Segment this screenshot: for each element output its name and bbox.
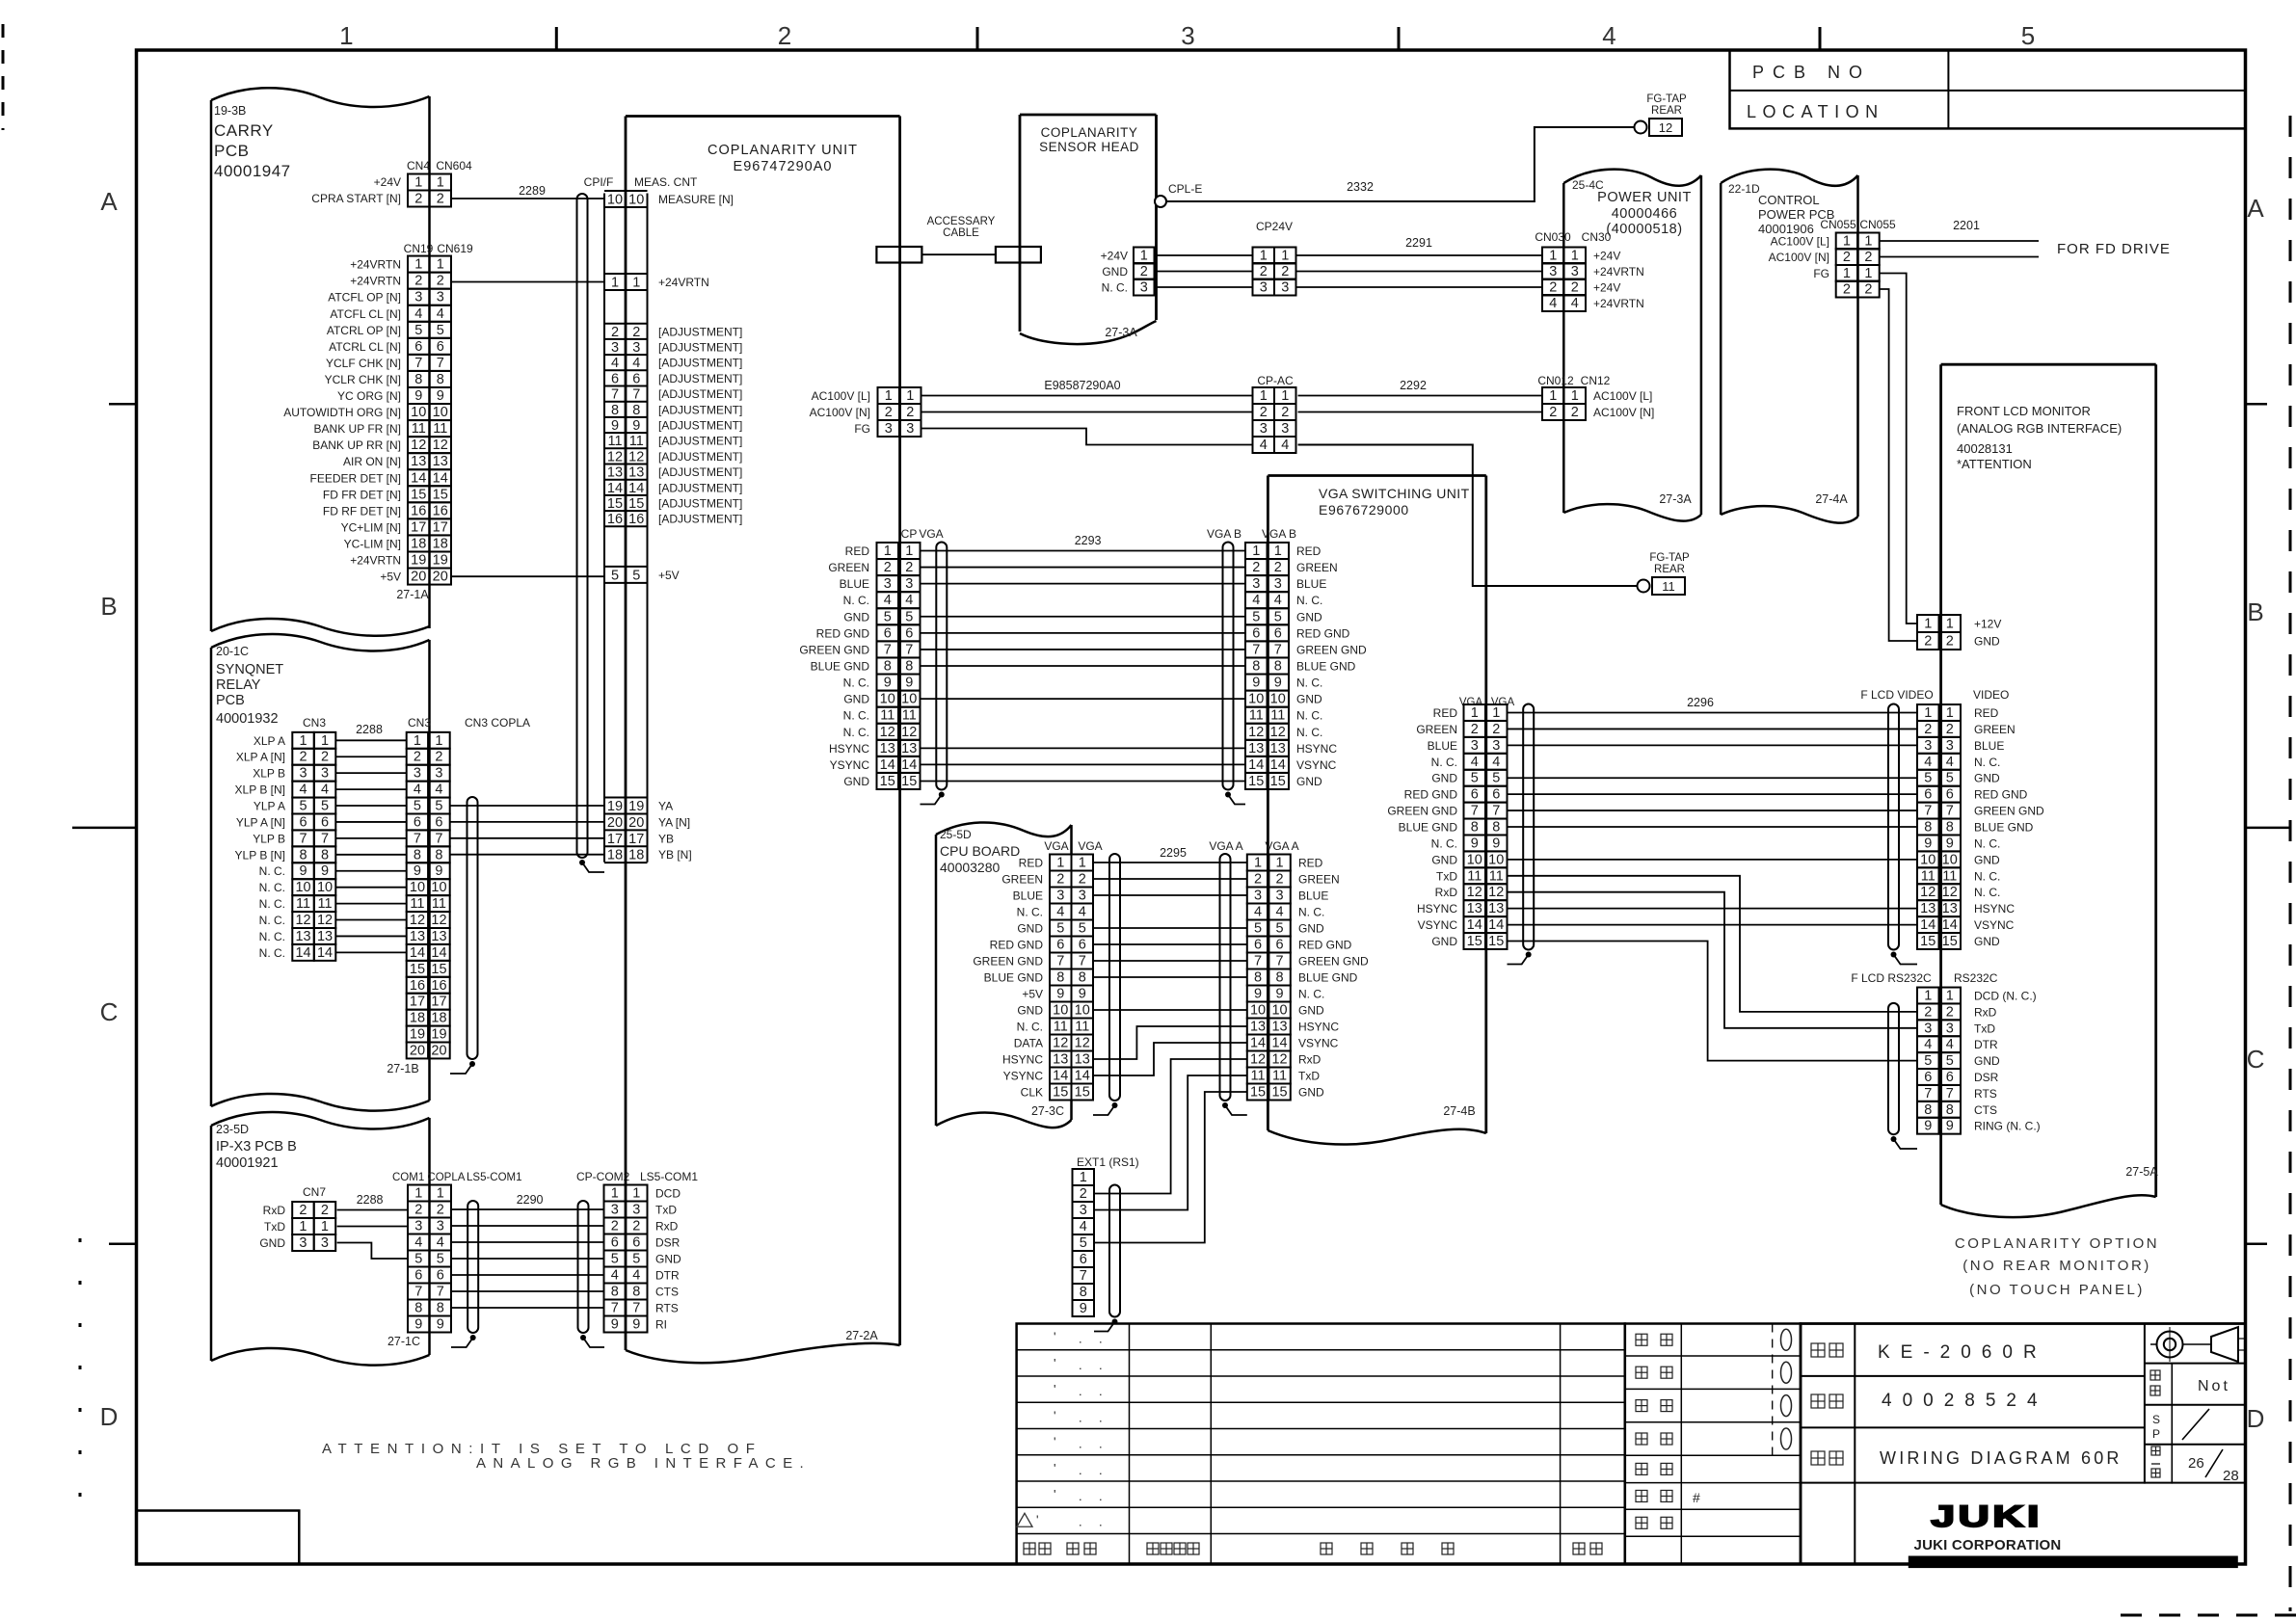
svg-text:3: 3: [321, 766, 329, 782]
svg-text:14: 14: [1488, 917, 1504, 933]
svg-text:2290: 2290: [517, 1193, 544, 1207]
svg-text:3: 3: [1140, 280, 1148, 296]
svg-text:BANK UP FR [N]: BANK UP FR [N]: [314, 422, 401, 436]
svg-text:2291: 2291: [1405, 236, 1432, 250]
svg-text:PCB: PCB: [214, 142, 249, 160]
svg-text:GND: GND: [1298, 1004, 1324, 1018]
svg-text:7: 7: [1252, 642, 1260, 657]
svg-text:YC ORG [N]: YC ORG [N]: [337, 389, 401, 403]
svg-text:TxD: TxD: [264, 1220, 285, 1234]
svg-text:RTS: RTS: [655, 1302, 679, 1315]
svg-text:2: 2: [437, 274, 444, 289]
svg-text:9: 9: [632, 1317, 640, 1333]
svg-text:2: 2: [437, 192, 444, 207]
wires CN055 to FOR FD DRIVE (2201): [1880, 241, 2039, 257]
svg-text:2289: 2289: [519, 184, 546, 198]
svg-text:13: 13: [1248, 741, 1264, 756]
svg-text:3: 3: [321, 1235, 329, 1251]
connector F LCD VIDEO/VIDEO pin table (15 pins): [1917, 704, 1961, 949]
svg-text:[ADJUSTMENT]: [ADJUSTMENT]: [658, 372, 742, 385]
svg-text:40001932: 40001932: [216, 711, 279, 727]
svg-text:8: 8: [1274, 658, 1282, 674]
svg-text:11: 11: [433, 421, 447, 437]
svg-text:4: 4: [1549, 296, 1557, 311]
svg-text:9: 9: [1924, 836, 1932, 851]
svg-text:3: 3: [414, 1219, 422, 1234]
connector: accessary cable splice boxes: [876, 247, 1041, 263]
svg-text:9: 9: [435, 863, 442, 879]
svg-text:14: 14: [410, 945, 425, 961]
svg-text:7: 7: [632, 387, 640, 403]
svg-text:4: 4: [611, 1268, 619, 1284]
svg-text:2: 2: [611, 1219, 619, 1234]
svg-text:6: 6: [1079, 938, 1086, 953]
svg-text:13: 13: [607, 465, 623, 481]
SYNQNET RELAY PCB title text: [216, 645, 283, 727]
COPLANARITY SENSOR HEAD title: [1039, 125, 1139, 154]
PCB: SYNQNET RELAY PCB 40001932 (20-1C) outline: [211, 634, 430, 1111]
svg-text:17: 17: [411, 519, 426, 535]
unit: COPLANARITY SENSOR HEAD outline: [1020, 115, 1157, 344]
svg-text:8: 8: [1946, 820, 1954, 836]
svg-text:(ANALOG RGB INTERFACE): (ANALOG RGB INTERFACE): [1957, 421, 2122, 436]
svg-text:AUTOWIDTH ORG [N]: AUTOWIDTH ORG [N]: [283, 406, 401, 419]
svg-text:YC+LIM [N]: YC+LIM [N]: [341, 520, 401, 534]
svg-text:2: 2: [1260, 264, 1268, 279]
svg-text:9: 9: [1254, 987, 1262, 1002]
svg-text:4: 4: [1281, 438, 1289, 453]
svg-text:.: .: [1099, 1437, 1103, 1451]
svg-text:F LCD VIDEO: F LCD VIDEO: [1860, 688, 1933, 702]
svg-text:2: 2: [906, 405, 914, 420]
svg-text:15: 15: [1053, 1085, 1068, 1101]
svg-text:11: 11: [1249, 708, 1264, 724]
svg-text:11: 11: [880, 708, 894, 724]
svg-text:DSR: DSR: [655, 1236, 681, 1250]
svg-text:BLUE GND: BLUE GND: [1974, 821, 2034, 835]
svg-text:': ': [1054, 1461, 1055, 1475]
svg-text:+12V: +12V: [1974, 618, 2001, 631]
svg-text:6: 6: [1946, 1070, 1954, 1085]
svg-text:40003280: 40003280: [940, 860, 1001, 875]
svg-text:AC100V [L]: AC100V [L]: [1771, 235, 1829, 249]
svg-text:GND: GND: [1296, 693, 1322, 706]
svg-text:RxD: RxD: [263, 1204, 286, 1217]
svg-text:COM1 COPLA: COM1 COPLA: [392, 1172, 466, 1183]
svg-text:2: 2: [1864, 282, 1872, 298]
connector CN19/CN619 pin table (20 pins): [408, 256, 451, 585]
svg-text:16: 16: [410, 978, 425, 994]
svg-text:3: 3: [1079, 889, 1086, 904]
connector CP VGA header labels: [901, 527, 944, 541]
svg-text:6: 6: [611, 1235, 619, 1251]
page cell: 26/28: [2151, 1446, 2239, 1484]
connector CN7 pin table: [292, 1202, 335, 1251]
svg-text:CPU BOARD: CPU BOARD: [940, 843, 1020, 859]
svg-text:YCLR CHK [N]: YCLR CHK [N]: [325, 373, 401, 386]
svg-text:3: 3: [1946, 1021, 1954, 1036]
CN055 pin signal labels: [1769, 235, 1829, 281]
svg-text:1: 1: [1924, 989, 1932, 1004]
svg-text:19: 19: [410, 1027, 425, 1043]
svg-text:N. C.: N. C.: [259, 930, 285, 943]
svg-text:8: 8: [1079, 970, 1086, 986]
svg-text:LOCATION: LOCATION: [1747, 102, 1884, 121]
svg-text:2: 2: [414, 750, 421, 765]
svg-text:14: 14: [1053, 1069, 1068, 1084]
svg-text:[ADJUSTMENT]: [ADJUSTMENT]: [658, 497, 742, 511]
wire VGA A 15 GND down to EXT1-5: [1094, 1092, 1246, 1243]
connector CN3 COPLA pin table (20 pins): [407, 732, 450, 1059]
svg-text:9: 9: [437, 1317, 444, 1333]
svg-text:[ADJUSTMENT]: [ADJUSTMENT]: [658, 403, 742, 416]
svg-text:3: 3: [1080, 1203, 1087, 1218]
svg-text:ATCRL OP [N]: ATCRL OP [N]: [327, 324, 401, 337]
svg-text:GREEN: GREEN: [828, 561, 869, 574]
wires CP-AC to CN012 (2292): [1298, 396, 1543, 412]
svg-text:10: 10: [1271, 1003, 1287, 1019]
svg-text:5: 5: [435, 799, 442, 814]
CONTROL POWER PCB title text: [1728, 182, 1834, 236]
svg-text:1: 1: [435, 733, 442, 749]
svg-text:VSYNC: VSYNC: [1296, 758, 1337, 772]
svg-text:RED: RED: [1019, 857, 1044, 870]
connector VGA B header labels: [1207, 527, 1296, 541]
svg-text:1: 1: [321, 733, 329, 749]
svg-text:.: .: [1079, 1489, 1082, 1503]
connector VGA (CPU) header labels: [1044, 839, 1102, 853]
svg-text:5: 5: [1079, 921, 1086, 937]
svg-text:11: 11: [1662, 579, 1675, 594]
svg-text:3: 3: [884, 576, 892, 592]
svg-text:11: 11: [1921, 868, 1936, 884]
svg-text:6: 6: [905, 625, 913, 641]
svg-text:CN3: CN3: [303, 716, 326, 730]
svg-text:2: 2: [1281, 264, 1289, 279]
svg-text:JUKI CORPORATION: JUKI CORPORATION: [1914, 1537, 2062, 1553]
svg-text:GND: GND: [1298, 1086, 1324, 1100]
svg-text:RxD: RxD: [1974, 1005, 1997, 1019]
svg-text:6: 6: [1252, 625, 1260, 641]
svg-text:1: 1: [1260, 249, 1268, 264]
svg-text:5: 5: [1056, 921, 1064, 937]
svg-text:15: 15: [411, 487, 426, 502]
svg-text:BLUE GND: BLUE GND: [1399, 821, 1458, 835]
svg-text:3: 3: [1260, 421, 1268, 437]
svg-text:15: 15: [1920, 934, 1936, 949]
svg-text:15: 15: [880, 774, 895, 789]
svg-text:7: 7: [1254, 954, 1262, 969]
svg-text:10: 10: [433, 405, 448, 420]
svg-text:2: 2: [1471, 722, 1479, 737]
svg-text:2: 2: [611, 325, 619, 340]
svg-text:17: 17: [628, 832, 644, 847]
svg-text:9: 9: [1274, 676, 1282, 691]
svg-text:4: 4: [1079, 905, 1086, 920]
svg-text:E98587290A0: E98587290A0: [1044, 379, 1120, 392]
svg-text:N. C.: N. C.: [1296, 677, 1322, 690]
svg-text:RED GND: RED GND: [1296, 626, 1350, 640]
svg-text:11: 11: [296, 896, 310, 912]
svg-text:2: 2: [1281, 405, 1289, 420]
svg-text:7: 7: [1946, 804, 1954, 819]
svg-text:AC100V [L]: AC100V [L]: [812, 389, 870, 403]
svg-text:N. C.: N. C.: [843, 709, 869, 723]
PCB: CARRY PCB 40001947 (19-3B) outline: [211, 88, 430, 636]
svg-text:14: 14: [1270, 757, 1286, 773]
svg-text:4: 4: [1946, 1037, 1954, 1052]
svg-text:10: 10: [317, 880, 333, 895]
svg-text:[ADJUSTMENT]: [ADJUSTMENT]: [658, 435, 742, 448]
svg-text:12: 12: [1053, 1036, 1068, 1051]
svg-text:8: 8: [632, 403, 640, 418]
svg-text:1: 1: [1254, 856, 1262, 871]
approval dashed line and stamp circles: [1773, 1324, 1792, 1456]
wire CP-AC-4 FG to FG-TAP REAR 11: [1298, 445, 1638, 587]
svg-text:12: 12: [628, 449, 644, 464]
svg-text:C: C: [100, 997, 119, 1026]
svg-text:XLP B: XLP B: [253, 767, 285, 781]
svg-text:5: 5: [321, 799, 329, 814]
svg-text:12: 12: [1488, 885, 1504, 900]
connector CP24V pin table: [1253, 248, 1296, 296]
svg-text:BLUE GND: BLUE GND: [1298, 971, 1358, 985]
svg-text:CPRA START [N]: CPRA START [N]: [311, 192, 401, 205]
svg-text:7: 7: [1056, 954, 1064, 969]
svg-text:6: 6: [884, 625, 892, 641]
svg-text:4: 4: [300, 783, 307, 798]
svg-text:3: 3: [632, 340, 640, 356]
wire CN055-B1 to monitor +12V: [1880, 274, 1917, 624]
svg-text:.: .: [1079, 1410, 1082, 1424]
svg-text:RED GND: RED GND: [990, 939, 1044, 952]
svg-text:1: 1: [299, 1219, 307, 1234]
svg-text:14: 14: [411, 470, 426, 486]
svg-text:1: 1: [1252, 544, 1260, 559]
svg-text:2288: 2288: [356, 723, 383, 736]
svg-text:9: 9: [1946, 1119, 1954, 1134]
svg-text:1: 1: [1549, 388, 1557, 404]
svg-text:12: 12: [1920, 885, 1936, 900]
wire CN7-1 TxD to COM1-3: [337, 1226, 408, 1228]
wire CPU YSYNC-14 to VGA A 14 (jog): [1093, 1043, 1247, 1075]
svg-text:1: 1: [905, 544, 913, 559]
svg-text:26: 26: [2188, 1455, 2204, 1472]
svg-text:1: 1: [437, 1186, 444, 1202]
svg-text:N. C.: N. C.: [1974, 886, 2000, 899]
svg-text:CN055: CN055: [1859, 218, 1896, 231]
svg-text:CN030: CN030: [1535, 230, 1571, 244]
svg-text:11: 11: [412, 421, 426, 437]
svg-text:.: .: [1099, 1463, 1103, 1477]
svg-text:GREEN GND: GREEN GND: [1974, 805, 2044, 818]
connector EXT1 pin table (9 pins, single column): [1073, 1169, 1095, 1316]
svg-text:RED: RED: [1974, 706, 1999, 720]
svg-text:2: 2: [905, 560, 913, 575]
svg-text:4: 4: [1252, 593, 1260, 608]
svg-text:3: 3: [300, 766, 307, 782]
svg-text:5: 5: [300, 799, 307, 814]
svg-text:4: 4: [905, 593, 913, 608]
svg-text:CN19: CN19: [404, 242, 434, 255]
svg-text:2: 2: [300, 750, 307, 765]
svg-text:MEAS. CNT: MEAS. CNT: [634, 175, 698, 189]
svg-text:GND: GND: [259, 1236, 285, 1250]
svg-text:4: 4: [1946, 755, 1954, 770]
svg-text:3: 3: [1056, 889, 1064, 904]
svg-text:[ADJUSTMENT]: [ADJUSTMENT]: [658, 465, 742, 479]
svg-text:TxD: TxD: [655, 1204, 677, 1217]
COPLANARITY UNIT title text: [707, 143, 858, 174]
connector F LCD RS232C / RS232C header labels: [1851, 971, 1997, 985]
connector CN012/CN12 pin table: [1542, 387, 1586, 420]
connector CP-COM2 / LS5-COM1 header labels: [576, 1170, 698, 1183]
svg-text:19: 19: [628, 799, 644, 814]
wire VGA-11 TxD to RS232C-2 RxD: [1508, 876, 1918, 1012]
svg-text:N. C.: N. C.: [1298, 988, 1324, 1001]
svg-text:DATA: DATA: [1014, 1037, 1043, 1050]
svg-text:GREEN GND: GREEN GND: [1387, 805, 1457, 818]
svg-text:3: 3: [1946, 738, 1954, 754]
svg-text:DSR: DSR: [1974, 1071, 1999, 1084]
svg-text:17: 17: [410, 995, 425, 1010]
unit: VGA SWITCHING UNIT E9676729000 outline: [1268, 476, 1485, 1145]
svg-text:2: 2: [1260, 405, 1268, 420]
wire CN7-3 GND to COM1-5 (jog): [337, 1243, 408, 1260]
svg-text:[ADJUSTMENT]: [ADJUSTMENT]: [658, 325, 742, 338]
svg-text:8: 8: [437, 372, 444, 387]
svg-text:N. C.: N. C.: [259, 914, 285, 927]
VGA B pin signal labels: [1296, 544, 1367, 788]
svg-text:+24V: +24V: [1101, 250, 1128, 263]
svg-text:3: 3: [611, 340, 619, 356]
svg-text:20: 20: [431, 1043, 446, 1058]
svg-text:40001947: 40001947: [214, 162, 291, 180]
svg-text:S: S: [2152, 1413, 2160, 1426]
svg-text:1: 1: [1924, 617, 1932, 632]
svg-text:2: 2: [1946, 634, 1954, 650]
svg-text:20: 20: [607, 815, 623, 831]
svg-text:P: P: [2152, 1427, 2160, 1441]
JUKI logo: [1909, 1500, 2238, 1569]
svg-text:13: 13: [410, 929, 425, 944]
PCB: CPU BOARD 40003280 (25-5D) outline: [936, 822, 1072, 1128]
svg-text:RED: RED: [845, 544, 870, 558]
svg-text:RELAY: RELAY: [216, 677, 261, 693]
svg-text:10: 10: [1920, 852, 1936, 867]
svg-text:7: 7: [414, 356, 422, 371]
svg-text:40000466: 40000466: [1612, 206, 1678, 222]
svg-text:YCLF CHK [N]: YCLF CHK [N]: [326, 357, 401, 370]
svg-text:CTS: CTS: [655, 1286, 679, 1299]
svg-text:': ': [1036, 1512, 1038, 1526]
svg-text:2296: 2296: [1687, 696, 1714, 709]
svg-text:2: 2: [632, 325, 640, 340]
svg-text:40028131: 40028131: [1957, 441, 2013, 456]
svg-text:3: 3: [885, 421, 893, 437]
svg-text:8: 8: [611, 1285, 619, 1300]
svg-text:+5V: +5V: [658, 569, 680, 582]
sensor head pin table (1-3): [1134, 248, 1155, 296]
cable 2290 oval left: [451, 1201, 478, 1347]
svg-text:13: 13: [880, 741, 895, 756]
svg-text:1: 1: [414, 1186, 422, 1202]
svg-text:10: 10: [880, 692, 895, 707]
svg-text:27-2A: 27-2A: [845, 1329, 878, 1342]
svg-text:4: 4: [437, 306, 444, 322]
svg-text:4: 4: [611, 356, 619, 371]
VGA (2296 left) pin signal labels: [1387, 706, 1457, 948]
svg-text:N. C.: N. C.: [259, 881, 285, 894]
svg-text:9: 9: [611, 1317, 619, 1333]
svg-text:1: 1: [414, 733, 421, 749]
svg-text:11: 11: [318, 896, 333, 912]
svg-text:DTR: DTR: [1974, 1038, 1998, 1051]
cable to coplanarity YA/YB (oval): [450, 797, 478, 1074]
svg-text:YA [N]: YA [N]: [658, 815, 690, 829]
svg-text:3: 3: [1281, 280, 1289, 296]
svg-text:19-3B: 19-3B: [214, 104, 246, 118]
svg-text:(NO TOUCH PANEL): (NO TOUCH PANEL): [1969, 1282, 2145, 1298]
svg-text:*ATTENTION: *ATTENTION: [1957, 457, 2032, 471]
svg-text:1: 1: [414, 175, 422, 191]
wire 2332 CPL-E to FG-TAP REAR 12: [1166, 127, 1635, 201]
svg-text:.: .: [1079, 1358, 1082, 1372]
svg-text:11: 11: [1251, 1069, 1266, 1084]
svg-text:D: D: [100, 1402, 119, 1431]
svg-text:FG: FG: [1813, 267, 1829, 280]
svg-text:XLP A [N]: XLP A [N]: [236, 751, 285, 764]
node CPL-E with circle: [1155, 182, 1202, 207]
svg-text:VGA B: VGA B: [1207, 527, 1241, 541]
svg-text:1: 1: [1471, 705, 1479, 721]
svg-text:2293: 2293: [1075, 534, 1102, 547]
cable 2296 oval right: [1888, 704, 1917, 965]
SP cell with slash: [2152, 1409, 2209, 1441]
svg-text:14: 14: [1467, 917, 1482, 933]
title block row labels: model/part-no/part-name (kanji placeholders): [1811, 1343, 1843, 1465]
svg-text:17: 17: [433, 519, 448, 535]
svg-text:.: .: [1099, 1332, 1103, 1346]
svg-text:+24V: +24V: [374, 175, 401, 189]
svg-text:GND: GND: [843, 610, 869, 624]
svg-text:RED: RED: [1296, 544, 1322, 558]
svg-text:9: 9: [1471, 836, 1479, 851]
FG-TAP REAR tap 12: [1635, 93, 1687, 136]
svg-text:GND: GND: [1431, 853, 1457, 866]
svg-text:GREEN GND: GREEN GND: [1298, 955, 1369, 969]
svg-text:6: 6: [1471, 787, 1479, 803]
svg-text:8: 8: [884, 658, 892, 674]
svg-text:YLP A: YLP A: [254, 800, 285, 813]
svg-text:1: 1: [632, 276, 640, 291]
sensor head pin labels: [1101, 250, 1129, 295]
svg-text:BLUE: BLUE: [840, 577, 869, 591]
svg-text:4: 4: [414, 1235, 422, 1251]
svg-text:27-5A: 27-5A: [2125, 1165, 2158, 1179]
svg-text:13: 13: [317, 929, 333, 944]
svg-text:14: 14: [1271, 1036, 1287, 1051]
svg-text:MEASURE [N]: MEASURE [N]: [658, 193, 734, 206]
svg-text:3: 3: [632, 1203, 640, 1218]
svg-text:FD RF DET [N]: FD RF DET [N]: [323, 504, 401, 518]
svg-text:COPLANARITY UNIT: COPLANARITY UNIT: [707, 143, 858, 158]
svg-text:1: 1: [437, 175, 444, 191]
PCB: POWER UNIT 40000466 (25-4C) outline: [1563, 170, 1701, 521]
svg-text:10: 10: [1942, 852, 1958, 867]
svg-text:9: 9: [632, 418, 640, 434]
svg-text:E96747290A0: E96747290A0: [734, 159, 833, 174]
